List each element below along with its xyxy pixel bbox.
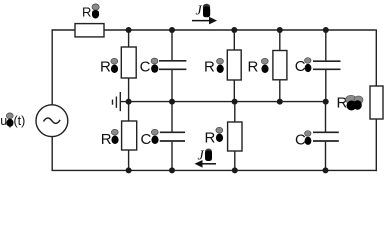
svg-text:C: C	[140, 58, 151, 75]
svg-text:R: R	[205, 129, 216, 146]
svg-text:(t): (t)	[14, 114, 26, 128]
svg-text:R: R	[204, 59, 215, 76]
svg-text:J: J	[196, 3, 203, 18]
svg-text:R: R	[101, 131, 112, 148]
svg-text:C: C	[141, 131, 152, 148]
svg-text:R: R	[100, 58, 111, 75]
svg-text:R: R	[248, 59, 259, 76]
svg-text:R: R	[337, 94, 348, 111]
svg-text:R: R	[82, 4, 91, 19]
svg-text:J: J	[198, 148, 205, 163]
svg-text:C: C	[295, 58, 306, 75]
